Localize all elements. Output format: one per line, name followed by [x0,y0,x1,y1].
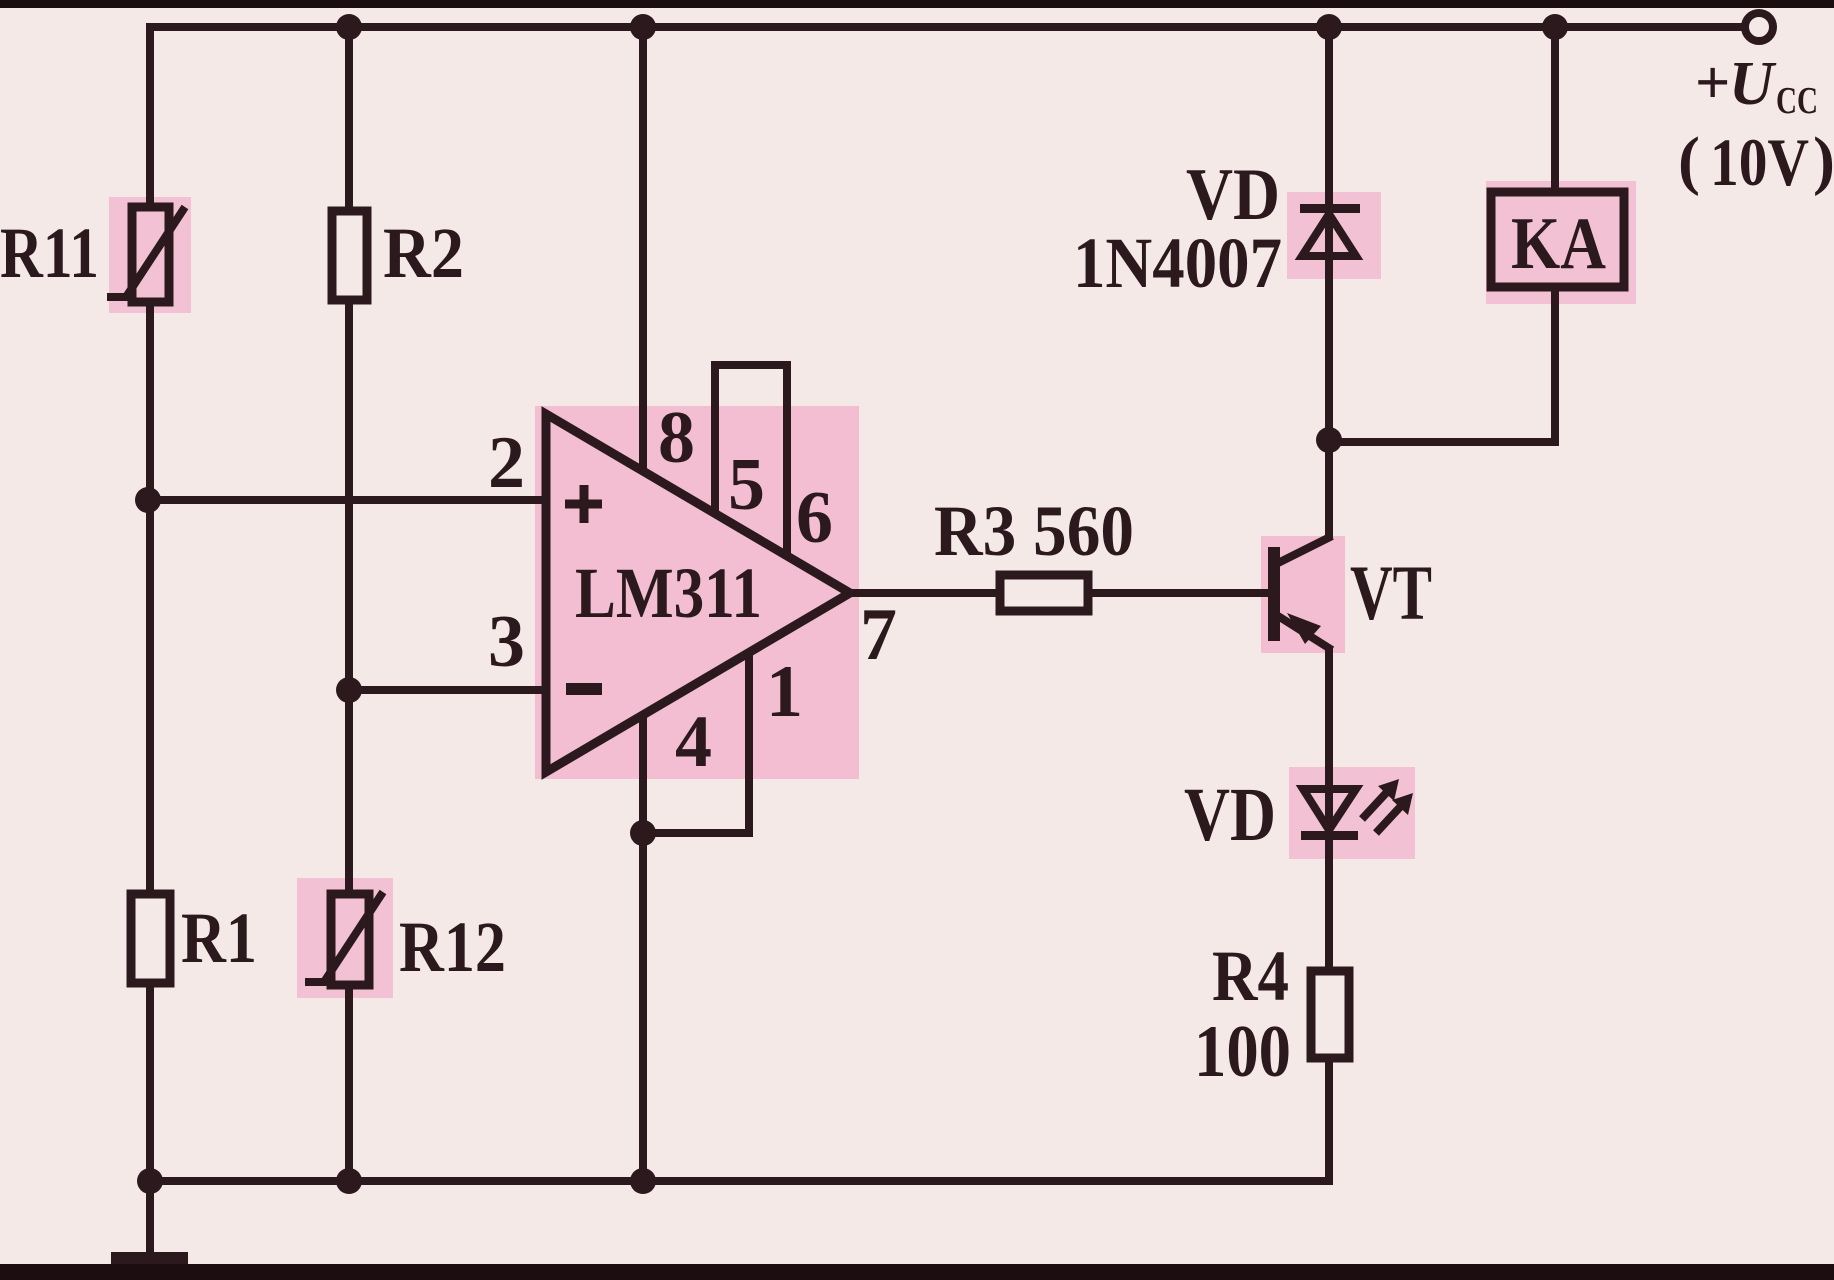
transistor VT emitter lead [1278,616,1332,650]
op-amp plus input mark [565,485,602,523]
wire left branch upper (R11 top lead) [146,23,154,208]
highlight box KA [1486,181,1636,304]
highlight box op-amp U1 [535,406,859,779]
terminal +Ucc [1745,13,1773,41]
diode VD 1N4007 triangle [1302,214,1356,256]
resistor R12 (thermistor body) [331,894,369,985]
wire ground stub [146,1181,154,1256]
resistor R1 body [131,894,170,983]
thermistor strike R11 [107,207,185,297]
junction dot bottom bus at pin4 [630,1168,656,1194]
wire pin7 output to R3 [848,589,1001,597]
svg-text:1N4007: 1N4007 [1073,223,1282,303]
svg-text:CC: CC [1776,80,1818,122]
svg-text:R2: R2 [383,213,464,293]
wire R2 top lead [345,23,353,212]
wire pin3 input [349,686,548,694]
junction dot top bus at diode branch [1316,14,1342,40]
ground [111,1252,188,1267]
highlight box R11 [109,197,191,313]
wire R3 to VT base [1087,589,1271,597]
resistor R3 body [1000,575,1088,611]
svg-text:100: 100 [1194,1011,1291,1093]
LED VD bar [1301,831,1358,840]
svg-text:U: U [1729,50,1777,118]
junction dot bottom bus at R12 [336,1168,362,1194]
svg-text:R3 560: R3 560 [934,491,1134,571]
resistor R2 body [332,211,367,300]
wire KA bottom lead and horizontal to collector node [1329,285,1555,442]
svg-text:+: + [1695,49,1730,117]
svg-text:1: 1 [766,651,803,733]
svg-text:VD: VD [1184,773,1276,857]
wire R2 bottom lead down through node B to R12 [345,299,353,895]
border top [0,0,1834,8]
wire pin4 lead down to bottom bus [639,713,647,1181]
junction dot node B pin3 [336,677,362,703]
transistor VT collector lead [1278,536,1332,563]
transistor VT base bar [1268,547,1280,641]
svg-text:5: 5 [728,444,765,526]
wire R4 bottom lead to bottom bus corner [150,1057,1329,1181]
LED VD emission arrow 2 [1376,806,1401,833]
wire pin8 lead from top bus [639,23,647,470]
diode VD 1N4007 cathode bar [1300,204,1360,213]
svg-text:8: 8 [658,397,695,479]
svg-text:7: 7 [860,594,897,676]
junction dot pin1-pin4 [630,820,656,846]
svg-text:R11: R11 [0,213,99,293]
wire VT emitter down through LED to R4 [1325,647,1333,972]
op-amp U1 triangle [546,414,850,772]
svg-text:10V: 10V [1710,124,1809,200]
svg-text:2: 2 [488,422,525,504]
junction dot bottom bus at R1 [137,1168,163,1194]
resistor R4 body [1311,971,1349,1058]
junction dot top bus at pin8 [630,14,656,40]
border bottom [0,1264,1834,1280]
junction dot top bus at KA [1542,14,1568,40]
wire pin2 input [148,496,548,504]
highlight box VT [1261,536,1345,653]
wire KA top lead [1551,23,1559,196]
resistor R11 (thermistor body) [132,207,169,302]
highlight box diode VD [1287,192,1381,279]
transistor VT emitter arrow [1287,613,1321,644]
wire diode branch from top bus to VT collector [1325,23,1333,540]
LED VD triangle [1303,789,1356,830]
wire top bus [150,23,1742,31]
svg-text:(: ( [1678,124,1700,197]
wire pin1 lead [643,652,749,833]
highlight box LED VD [1289,767,1415,859]
wire pin5-pin6 strap [715,365,787,553]
wire R11 bottom lead down to node A [146,301,154,895]
svg-text:R4: R4 [1212,936,1289,1016]
svg-text:3: 3 [488,601,525,683]
wire R1 bottom lead to bottom bus [146,982,154,1181]
svg-text:R12: R12 [399,907,506,987]
thermistor strike R12 [305,892,383,982]
svg-text:KA: KA [1511,203,1606,285]
LED VD emission arrow 1 [1362,792,1387,819]
junction dot top bus at R2 [336,14,362,40]
relay KA box [1491,192,1624,287]
svg-text:6: 6 [796,477,833,559]
junction dot node A pin2 [135,487,161,513]
svg-text:LM311: LM311 [575,553,762,633]
highlight box R12 [297,878,393,998]
junction dot collector node [1316,427,1342,453]
wire R12 bottom lead to bottom bus [345,984,353,1181]
svg-text:R1: R1 [181,898,257,978]
svg-text:): ) [1813,124,1834,197]
svg-text:4: 4 [675,701,712,783]
op-amp minus input mark [566,683,602,695]
svg-text:VT: VT [1350,549,1432,636]
